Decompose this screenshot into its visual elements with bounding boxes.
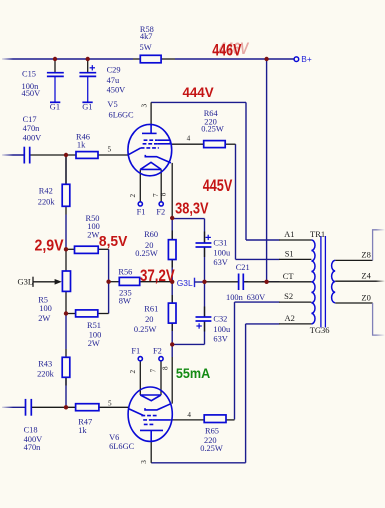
svg-text:V5: V5: [107, 100, 117, 109]
svg-text:63V: 63V: [213, 258, 227, 267]
svg-text:6L6GC: 6L6GC: [109, 442, 135, 451]
svg-text:R51: R51: [87, 321, 101, 330]
svg-text:C17: C17: [23, 115, 37, 124]
svg-text:R56: R56: [118, 268, 132, 277]
svg-text:CT: CT: [283, 271, 295, 281]
svg-text:1k: 1k: [77, 140, 86, 149]
svg-text:F1: F1: [137, 208, 146, 217]
svg-text:445V: 445V: [203, 176, 233, 195]
svg-text:0.25W: 0.25W: [134, 325, 157, 334]
svg-text:5: 5: [108, 145, 112, 153]
svg-text:G1: G1: [50, 102, 60, 111]
svg-text:F2: F2: [156, 208, 165, 217]
svg-text:6L6GC: 6L6GC: [109, 111, 135, 120]
svg-text:2,9V: 2,9V: [35, 237, 64, 255]
svg-text:Z4: Z4: [361, 271, 371, 281]
svg-text:0.25W: 0.25W: [201, 124, 224, 133]
svg-text:F2: F2: [153, 346, 162, 355]
svg-text:B+: B+: [301, 54, 312, 64]
svg-text:3: 3: [141, 104, 149, 108]
svg-text:470n: 470n: [23, 124, 41, 133]
svg-text:R42: R42: [39, 186, 53, 195]
svg-text:450V: 450V: [22, 89, 41, 98]
svg-text:450V: 450V: [107, 86, 126, 95]
svg-text:S2: S2: [284, 291, 293, 301]
svg-text:3: 3: [140, 460, 148, 464]
svg-text:Z0: Z0: [361, 293, 370, 303]
svg-text:R61: R61: [144, 304, 158, 313]
svg-text:2W: 2W: [88, 339, 100, 348]
svg-text:100: 100: [39, 304, 52, 313]
svg-text:630V: 630V: [247, 293, 266, 302]
svg-text:A2: A2: [285, 313, 295, 323]
svg-text:8: 8: [162, 366, 170, 370]
svg-text:2: 2: [129, 194, 137, 198]
svg-text:100: 100: [89, 330, 102, 339]
svg-text:G1: G1: [82, 102, 92, 111]
svg-text:7: 7: [150, 369, 158, 373]
svg-text:0.25W: 0.25W: [135, 249, 158, 258]
svg-text:C21: C21: [236, 263, 250, 272]
svg-text:C29: C29: [107, 66, 121, 75]
svg-text:TR1: TR1: [310, 229, 325, 239]
svg-text:446V: 446V: [212, 42, 241, 60]
svg-text:2: 2: [129, 370, 137, 374]
svg-text:R43: R43: [38, 359, 52, 368]
svg-text:R60: R60: [144, 230, 158, 239]
svg-text:470n: 470n: [24, 443, 42, 452]
svg-text:2W: 2W: [87, 230, 99, 239]
svg-text:400V: 400V: [23, 134, 42, 143]
svg-text:100u: 100u: [213, 325, 231, 334]
svg-text:220k: 220k: [37, 370, 55, 379]
svg-text:C31: C31: [213, 238, 227, 247]
svg-text:2W: 2W: [38, 314, 50, 323]
svg-text:0.25W: 0.25W: [200, 444, 223, 453]
svg-text:100n: 100n: [226, 293, 244, 302]
svg-text:C32: C32: [213, 314, 227, 323]
svg-text:C18: C18: [24, 426, 38, 435]
svg-text:8: 8: [159, 192, 167, 196]
svg-text:R65: R65: [205, 426, 219, 435]
svg-text:F1: F1: [131, 346, 140, 355]
svg-text:G3L: G3L: [18, 277, 34, 287]
svg-text:63V: 63V: [213, 334, 227, 343]
svg-text:100u: 100u: [213, 249, 231, 258]
svg-text:444V: 444V: [183, 85, 215, 101]
svg-text:5: 5: [108, 400, 112, 408]
svg-text:47u: 47u: [107, 76, 120, 85]
svg-text:8W: 8W: [119, 296, 131, 305]
svg-text:220k: 220k: [38, 198, 56, 207]
svg-text:C15: C15: [22, 70, 36, 79]
svg-text:37,2V: 37,2V: [140, 267, 175, 285]
svg-text:4k7: 4k7: [140, 32, 153, 41]
svg-text:4: 4: [187, 411, 191, 419]
svg-text:S1: S1: [285, 248, 294, 258]
svg-text:4: 4: [187, 135, 191, 143]
svg-text:1k: 1k: [78, 426, 87, 435]
svg-text:V6: V6: [109, 433, 119, 442]
svg-text:20: 20: [145, 315, 153, 324]
svg-text:5W: 5W: [140, 43, 152, 52]
svg-text:8,5V: 8,5V: [99, 233, 127, 250]
svg-text:TG36: TG36: [310, 325, 330, 335]
svg-text:Z8: Z8: [361, 249, 370, 259]
svg-text:A1: A1: [284, 229, 294, 239]
svg-text:38,3V: 38,3V: [175, 201, 209, 218]
svg-text:G3L: G3L: [177, 278, 193, 288]
svg-text:55mA: 55mA: [176, 366, 210, 382]
